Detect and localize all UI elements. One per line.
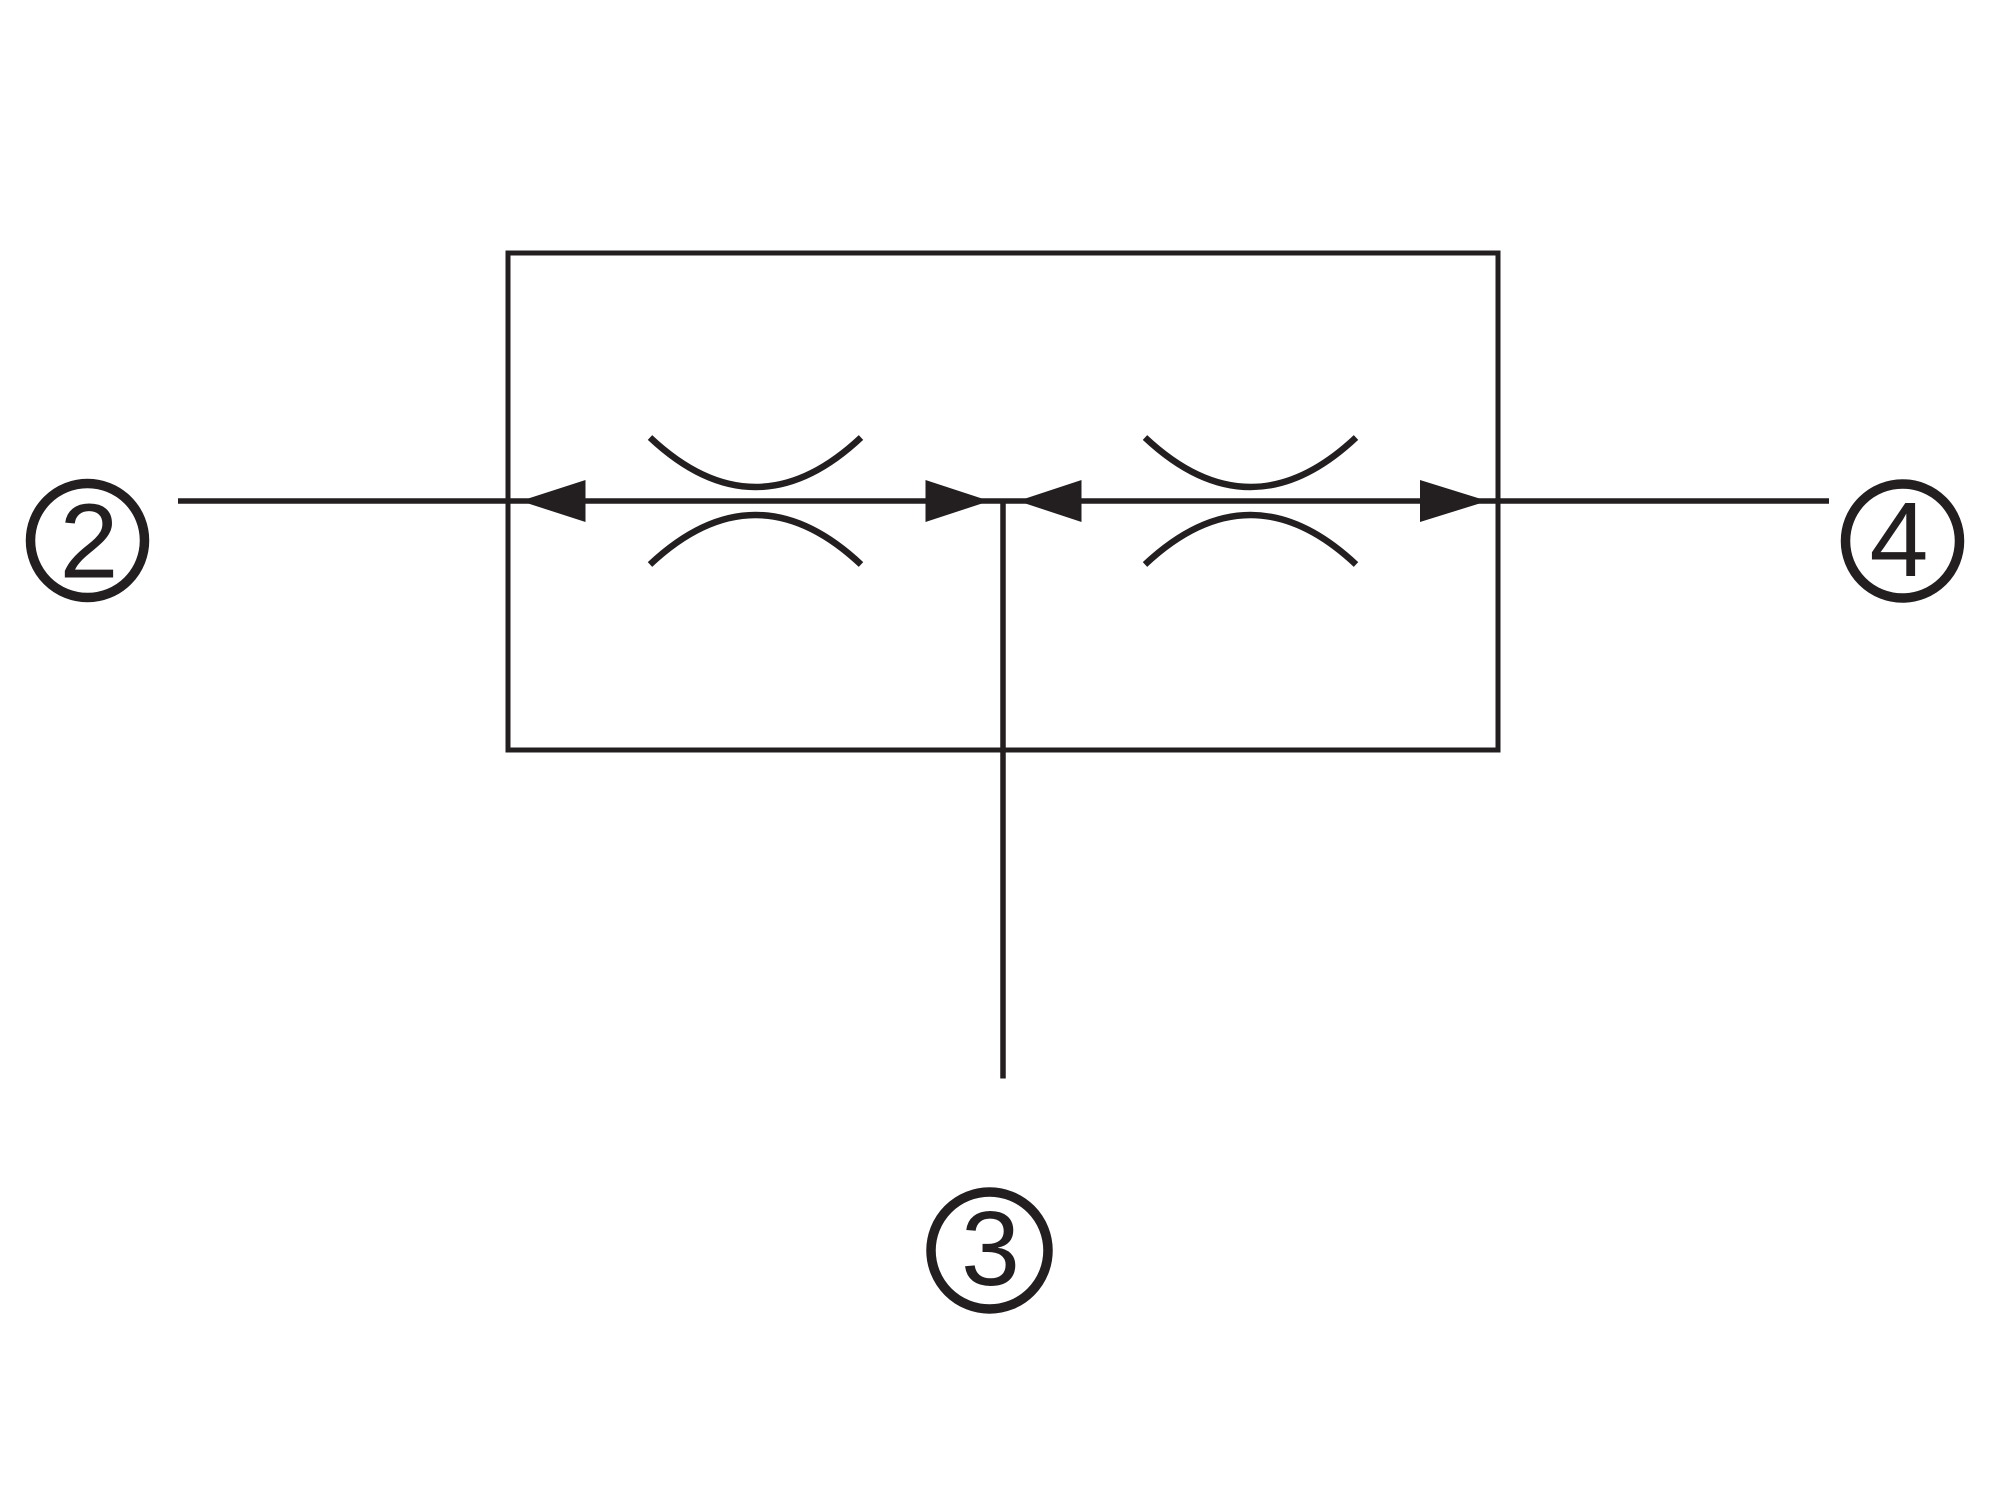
arrowhead pointing right near right edge — [1420, 480, 1488, 522]
arrowhead pointing right left of center junction — [926, 480, 990, 522]
port 3 circle — [931, 1192, 1048, 1309]
svg-text:3: 3 — [961, 1190, 1020, 1308]
port 2 circle — [31, 484, 145, 598]
arrowhead pointing left right of center junction — [1018, 480, 1082, 522]
right orifice upper arc — [1145, 438, 1356, 488]
port 4 circle — [1846, 484, 1960, 598]
wire: horizontal flow line port 2 to port 4 — [178, 498, 1829, 504]
svg-text:4: 4 — [1870, 481, 1929, 599]
left orifice lower arc — [650, 515, 861, 565]
right orifice lower arc — [1145, 515, 1356, 565]
wire: vertical branch to port 3 — [1000, 501, 1006, 1079]
left orifice upper arc — [650, 438, 861, 488]
valve body rectangle — [508, 253, 1498, 750]
arrowhead pointing left near left edge — [521, 480, 586, 522]
svg-text:2: 2 — [60, 483, 119, 601]
